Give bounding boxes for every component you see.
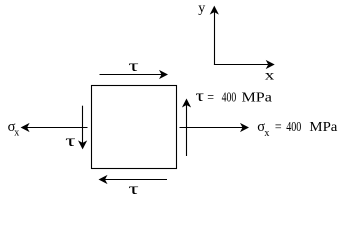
coordinate axes: [210, 6, 275, 70]
x axis (horizontal, arrow right): [214, 64, 268, 66]
svg-text:τ: τ: [128, 181, 139, 198]
y axis (vertical, arrow up): [214, 12, 216, 65]
svg-text:τ: τ: [196, 88, 205, 105]
svg-text:x: x: [14, 128, 19, 139]
svg-text:400: 400: [222, 90, 237, 105]
bottom shear arrow (tau, pointing left): [99, 175, 168, 184]
svg-text:MPa: MPa: [309, 120, 338, 135]
right face shear arrow (tau, pointing up): [182, 99, 191, 157]
svg-text:MPa: MPa: [242, 90, 273, 105]
svg-text:=: =: [275, 120, 282, 135]
svg-text:y: y: [198, 1, 205, 16]
svg-text:τ: τ: [65, 133, 76, 150]
svg-text:x: x: [265, 68, 275, 83]
label tau = 400 MPa: [196, 88, 273, 105]
svg-text:=: =: [207, 90, 214, 105]
svg-text:400: 400: [286, 120, 301, 135]
left face shear arrow (tau, pointing down): [78, 106, 87, 150]
stress element square: [92, 86, 177, 169]
left normal stress arrow (sigma_x, pointing left): [21, 123, 88, 132]
top shear arrow (tau, pointing right): [100, 70, 169, 79]
svg-text:x: x: [264, 128, 269, 139]
svg-text:τ: τ: [128, 58, 139, 75]
right normal stress arrow (sigma_x, pointing right): [180, 123, 250, 132]
label sigma_x = 400 MPa: [257, 119, 338, 139]
